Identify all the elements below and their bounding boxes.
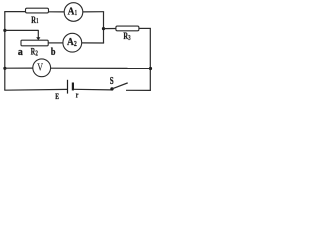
svg-text:V: V bbox=[37, 61, 43, 73]
wire R1 to A1 bbox=[48, 11, 65, 13]
wire A2 to vertical bbox=[82, 42, 105, 44]
svg-text:r: r bbox=[76, 89, 79, 99]
label R1 bbox=[31, 16, 38, 26]
wiper arrowhead onto R2 bbox=[36, 37, 40, 40]
resistor R1 box bbox=[26, 8, 49, 13]
wire top from left corner to R1 bbox=[4, 11, 26, 13]
label A2 bbox=[67, 37, 77, 48]
svg-text:2: 2 bbox=[35, 49, 38, 58]
wire battery to switch pivot bbox=[74, 88, 112, 91]
node wiper branch on left edge bbox=[3, 29, 6, 32]
rheostat R2 box bbox=[21, 40, 48, 46]
wire left edge to V bbox=[5, 67, 34, 69]
node junction A1/A2/R3 bbox=[102, 27, 105, 30]
wire bottom-left to battery bbox=[4, 88, 67, 91]
svg-text:2: 2 bbox=[74, 40, 77, 48]
wire switch contact to bottom-right corner bbox=[126, 89, 151, 91]
switch lever bbox=[112, 83, 128, 89]
resistor R3 box bbox=[116, 26, 139, 31]
svg-text:1: 1 bbox=[36, 18, 38, 25]
ammeter A2 circle bbox=[63, 33, 82, 52]
battery long plate E+ bbox=[67, 80, 69, 94]
svg-text:3: 3 bbox=[128, 34, 131, 42]
wire vertical x=103.5 from top corner to A2 row bbox=[103, 12, 105, 43]
svg-text:1: 1 bbox=[75, 9, 78, 17]
ammeter A1 circle bbox=[64, 3, 83, 22]
wire wiper vertical bbox=[37, 30, 39, 38]
svg-text:a: a bbox=[18, 47, 23, 58]
wire wiper horizontal bbox=[5, 29, 39, 31]
wire R2 to A2 bbox=[48, 42, 63, 44]
svg-text:b: b bbox=[51, 47, 56, 58]
label R3 bbox=[123, 32, 131, 42]
battery short plate E- bbox=[72, 83, 74, 91]
svg-text:S: S bbox=[110, 76, 114, 87]
label A1 bbox=[68, 7, 78, 18]
wire junction to R3 bbox=[104, 28, 117, 30]
svg-text:E: E bbox=[55, 92, 59, 101]
label R2 bbox=[31, 48, 38, 58]
switch pivot dot bbox=[110, 87, 113, 90]
node V branch on left edge bbox=[3, 67, 6, 70]
wire right edge bbox=[149, 28, 151, 90]
wire left edge bbox=[4, 12, 6, 91]
svg-text:A: A bbox=[68, 7, 75, 18]
voltmeter V circle bbox=[33, 59, 51, 77]
wire A1 to top-right corner bbox=[83, 11, 105, 13]
wire R3 to right edge bbox=[139, 27, 151, 29]
wire V to right edge bbox=[50, 67, 150, 69]
node V branch on right edge bbox=[149, 67, 152, 70]
